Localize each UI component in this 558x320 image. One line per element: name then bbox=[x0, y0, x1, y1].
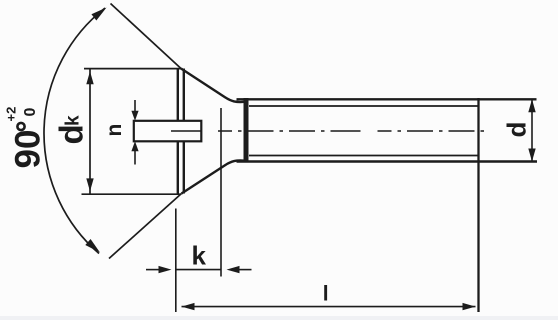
n arrow top stem bbox=[134, 100, 136, 112]
l arrowhead left bbox=[182, 303, 195, 310]
svg-text:l: l bbox=[323, 283, 329, 306]
svg-text:d: d bbox=[502, 122, 532, 138]
l arrowhead right bbox=[463, 303, 476, 310]
k arrow tail left bbox=[146, 269, 161, 271]
arc arrowhead bottom bbox=[85, 239, 102, 256]
construction line lower (countersink angle) bbox=[109, 194, 182, 259]
d dimension line bbox=[531, 99, 533, 161]
k dimension line bbox=[176, 269, 221, 271]
shaft top line / d extension top bbox=[237, 98, 537, 100]
centerline bbox=[171, 130, 490, 132]
svg-text:90: 90 bbox=[9, 130, 48, 169]
head cone top outline bbox=[181, 69, 245, 103]
thread minor line top bbox=[249, 105, 478, 107]
k extension line left bbox=[175, 209, 177, 313]
dk arrowhead bottom bbox=[86, 178, 93, 191]
svg-text:d: d bbox=[53, 124, 90, 144]
k arrow tail right bbox=[238, 269, 252, 271]
svg-text:k: k bbox=[63, 115, 84, 126]
slot rectangle bbox=[134, 121, 202, 142]
n arrowhead top bbox=[131, 111, 138, 121]
svg-text:+2: +2 bbox=[4, 107, 19, 122]
shaft bottom line / d extension bottom bbox=[237, 160, 538, 162]
k arrowhead right bbox=[227, 266, 240, 273]
n arrow bottom stem bbox=[134, 151, 136, 165]
thread start thick line bbox=[244, 98, 249, 163]
d arrowhead top bbox=[528, 99, 535, 112]
dk extension line top bbox=[84, 68, 181, 70]
arc arrowhead top bbox=[91, 4, 109, 20]
svg-text:n: n bbox=[103, 124, 126, 137]
thread minor line bottom bbox=[249, 155, 478, 157]
screw end line / l extension right bbox=[477, 98, 479, 312]
dk arrowhead top bbox=[86, 71, 93, 84]
k arrowhead left bbox=[159, 266, 172, 273]
head face outer line bbox=[177, 69, 179, 194]
n arrowhead bottom bbox=[131, 141, 138, 151]
l dimension line bbox=[182, 306, 476, 308]
angle arc 90deg bbox=[44, 8, 105, 254]
dk extension line bottom bbox=[82, 193, 182, 195]
svg-text:k: k bbox=[192, 241, 207, 271]
head face inner line bbox=[183, 69, 185, 194]
svg-text:0: 0 bbox=[22, 108, 39, 117]
construction line upper (countersink angle) bbox=[111, 4, 182, 69]
d arrowhead bottom bbox=[528, 149, 535, 162]
head cone bottom outline bbox=[182, 160, 246, 193]
dk dimension line bbox=[89, 69, 91, 195]
label degree ring bbox=[17, 123, 24, 130]
k extension line right bbox=[220, 108, 222, 277]
